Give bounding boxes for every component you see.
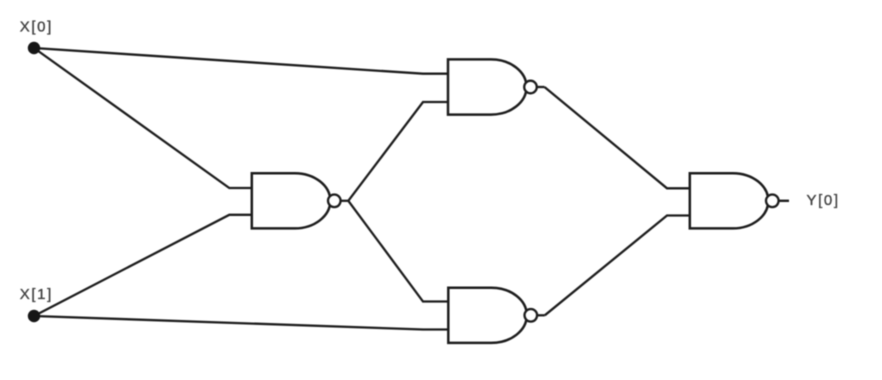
svg-text:Y[0]: Y[0] [807, 192, 840, 209]
NAND gate D (output) [690, 173, 779, 228]
NAND gate B (middle) [252, 173, 348, 228]
svg-text:X[0]: X[0] [20, 18, 53, 35]
wire X[0] to NAND B top input [34, 48, 252, 188]
wire X[1] to NAND B bottom input [34, 215, 252, 316]
wire NAND D output stub [779, 200, 789, 202]
wire NAND B output to NAND C top input [348, 201, 448, 302]
NAND gate A (top) [448, 59, 545, 114]
wire X[1] to NAND C bottom input [34, 316, 448, 330]
label X[0] [20, 18, 53, 35]
NAND gate C (bottom) [448, 288, 545, 343]
wire NAND C output to NAND D bottom input [545, 216, 690, 316]
wire X[0] to NAND A top input [34, 48, 448, 74]
label X[1] [20, 286, 53, 303]
label Y[0] [807, 192, 840, 209]
input pin X[0] [28, 42, 40, 54]
input pin X[1] [28, 310, 40, 322]
svg-text:X[1]: X[1] [20, 286, 53, 303]
wire NAND A output to NAND D top input [545, 87, 690, 188]
wire NAND B output to NAND A bottom input [348, 102, 448, 201]
